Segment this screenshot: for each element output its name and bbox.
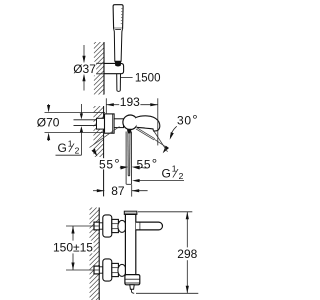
dimension Ø70 (37, 104, 105, 141)
svg-text:150±15: 150±15 (53, 240, 93, 254)
lever swing arc arrows at lever (118, 166, 145, 170)
wall (bottom view) (90, 200, 100, 300)
spout outlet axis 30deg (153, 129, 168, 152)
dimension Ø37 (73, 45, 104, 91)
svg-text:Ø70: Ø70 (37, 116, 60, 130)
dimension 87 (93, 184, 148, 198)
shower outlet stub below knob (126, 132, 132, 185)
mixer body shaft (side view) (114, 119, 123, 128)
svg-text:1500: 1500 (135, 73, 161, 85)
drip hook (131, 289, 134, 293)
hand shower head (113, 5, 123, 29)
svg-text:193: 193 (120, 95, 140, 109)
lower S-union (bottom view) (94, 259, 126, 281)
hose nipple (130, 285, 134, 290)
cartridge knob (side view) (123, 115, 138, 130)
spout (side view) (136, 116, 160, 131)
lever joint (dark) (127, 129, 132, 134)
shower hose (117, 74, 121, 92)
mixer escutcheon (side view) (105, 114, 115, 133)
dimension 298 (136, 212, 199, 293)
svg-text:298: 298 (177, 247, 197, 261)
label G1/2 left with leader (56, 104, 84, 156)
svg-text:G: G (58, 141, 67, 155)
lever handle (side view, hanging down) (128, 131, 130, 176)
wall (top view) (94, 34, 104, 104)
30deg leader with arrow (170, 126, 177, 139)
svg-text:55°: 55° (137, 156, 158, 171)
55deg swing lever ghost right (136, 128, 169, 154)
wall (middle view) (93, 98, 103, 197)
holder grip cone (dark) (115, 61, 122, 66)
55deg swing lever ghost left (90, 127, 120, 157)
label G1/2 right with leader (132, 164, 184, 183)
svg-text:2: 2 (75, 146, 80, 156)
svg-text:G: G (162, 167, 171, 181)
svg-text:30°: 30° (177, 113, 198, 128)
lever handle (bottom view) (136, 222, 163, 230)
supply pipe stub (middle view) (74, 120, 105, 126)
svg-text:Ø37: Ø37 (73, 62, 96, 76)
dimension 150±15 (52, 226, 99, 270)
shower holder arm (104, 63, 124, 73)
hand shower handle (114, 28, 123, 61)
bottom outlet collar (125, 275, 140, 285)
svg-text:55°: 55° (99, 156, 120, 171)
svg-text:87: 87 (111, 184, 125, 198)
wall nut (middle view) (97, 118, 105, 129)
svg-text:2: 2 (179, 171, 184, 181)
upper S-union (bottom view) (94, 215, 126, 237)
dimension 193 (106, 95, 158, 145)
leader 1500 (hose length) (121, 73, 161, 85)
mixer body (bottom view) (124, 211, 137, 274)
label 55deg left (98, 158, 120, 169)
